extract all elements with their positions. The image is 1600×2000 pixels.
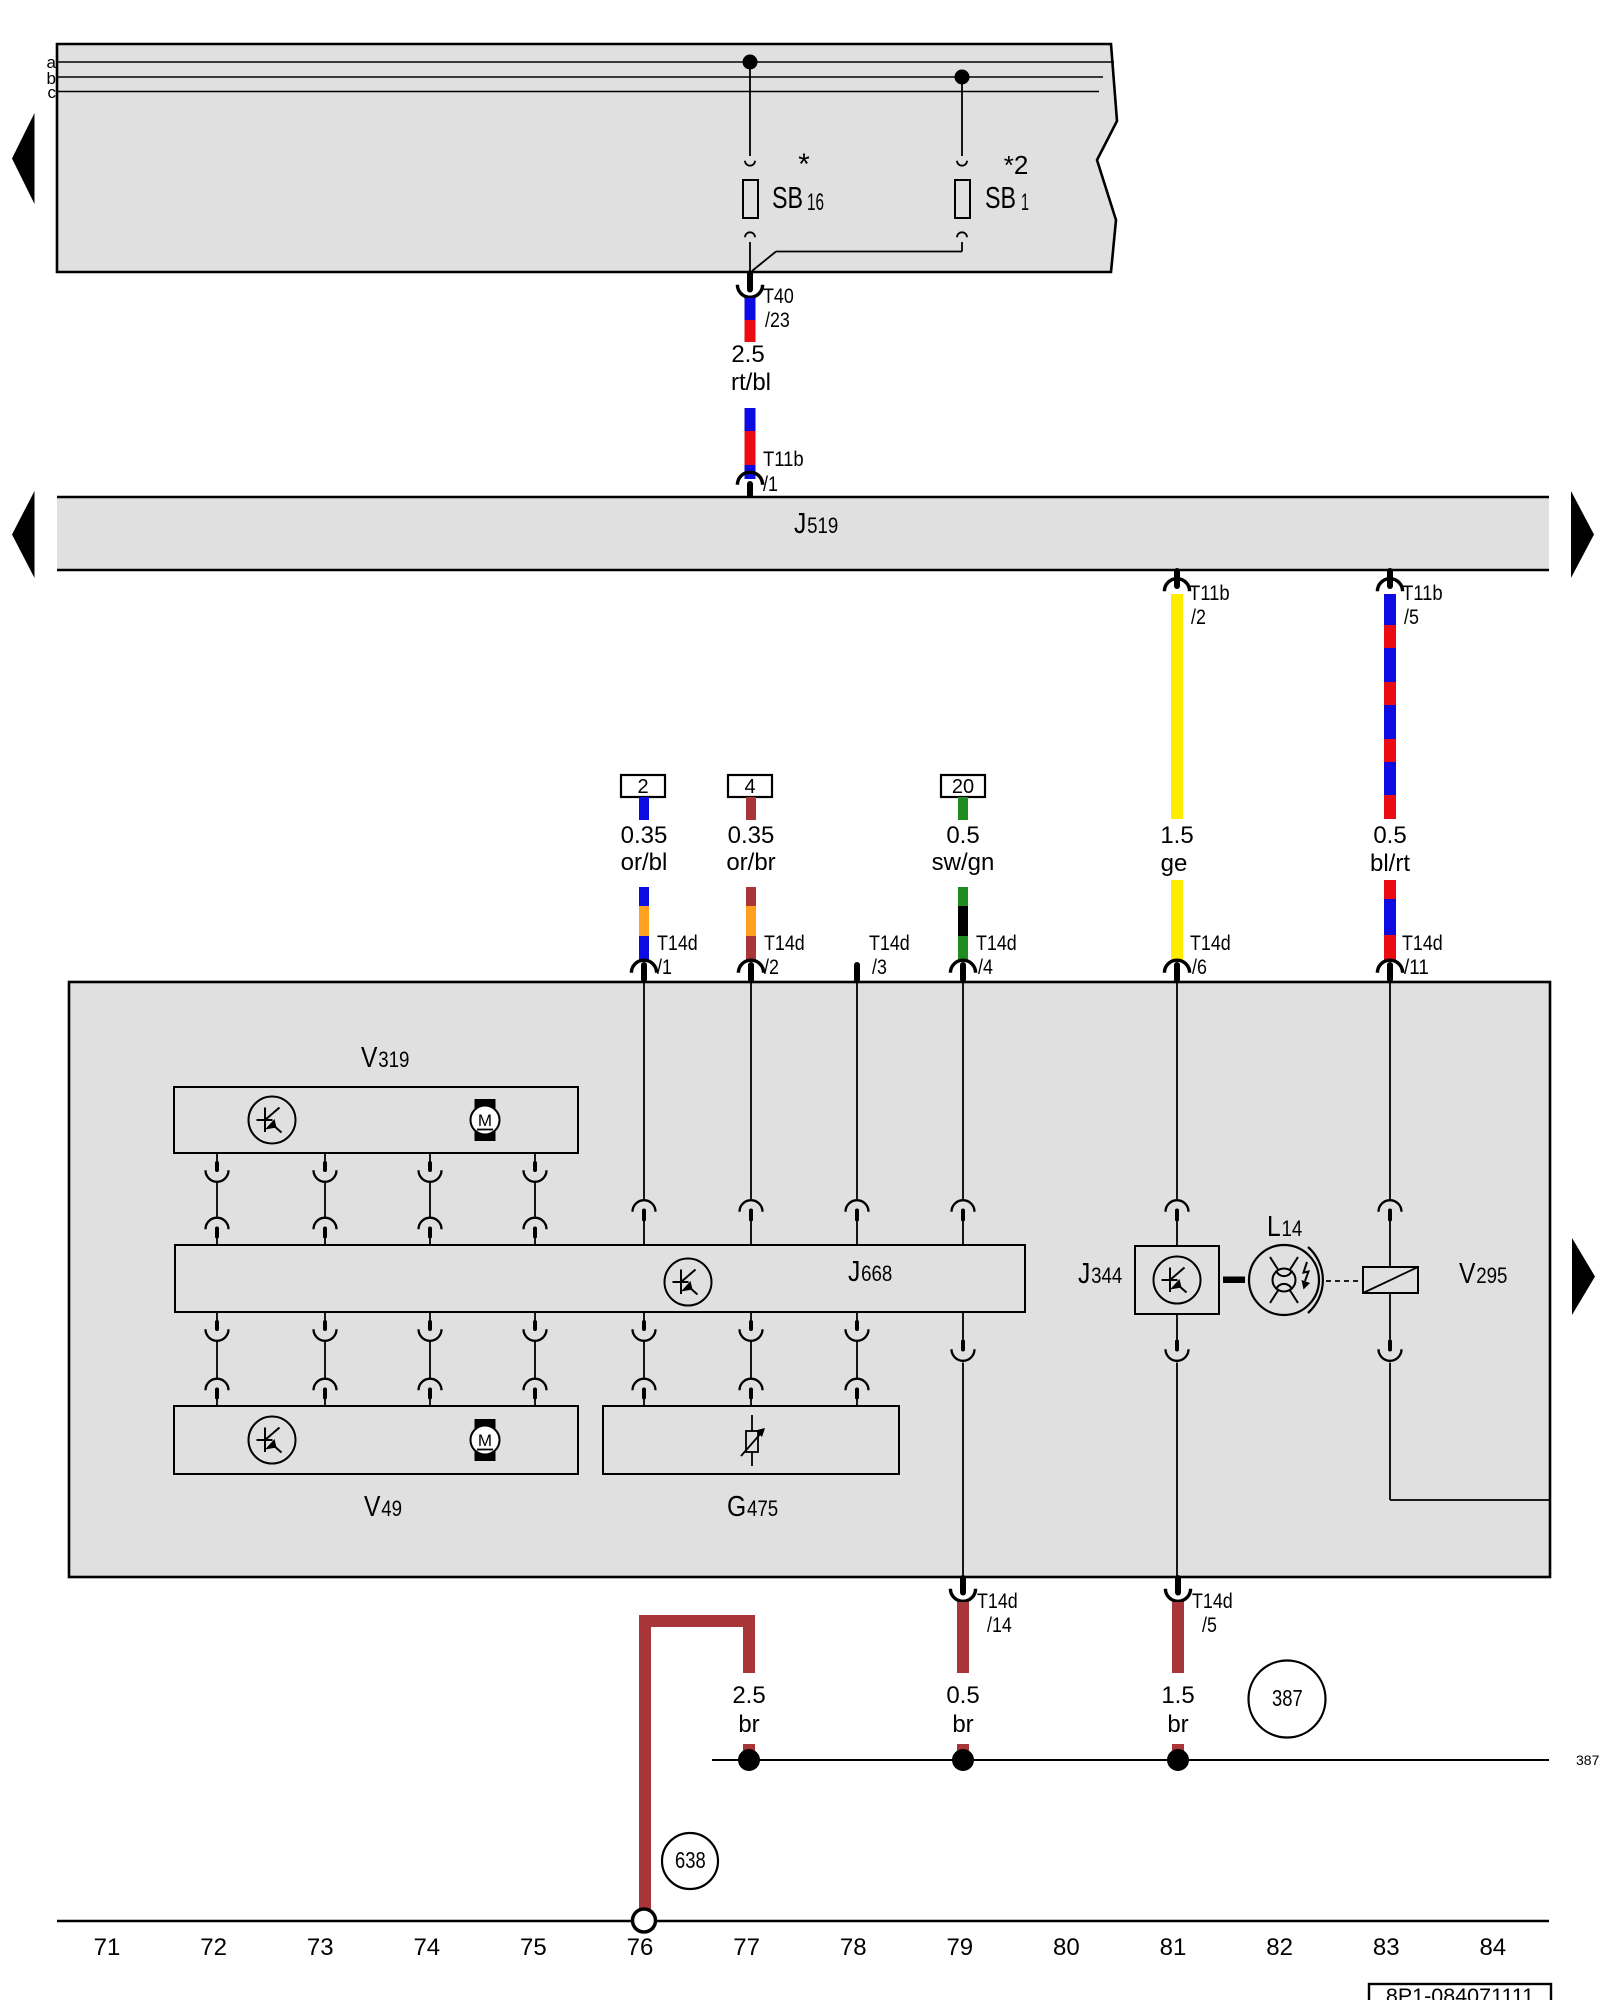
wire V295 down and right to box edge	[1379, 1293, 1550, 1500]
svg-text:M: M	[478, 1431, 492, 1450]
wire 1.5 ge lower segment	[1171, 880, 1183, 961]
svg-text:/23: /23	[765, 309, 790, 332]
svg-text:2.5: 2.5	[732, 1682, 765, 1709]
svg-text:78: 78	[840, 1934, 867, 1961]
wire 2.5 rt/bl lower segment	[745, 408, 756, 479]
svg-text:0.35: 0.35	[621, 822, 668, 849]
connector T14d/11	[1377, 932, 1442, 983]
power rail b	[47, 69, 1103, 88]
link bar J344 to L14	[1223, 1277, 1245, 1284]
svg-text:77: 77	[733, 1934, 760, 1961]
motor symbol in V49	[471, 1419, 500, 1461]
svg-text:*: *	[798, 148, 810, 181]
svg-text:sw/gn: sw/gn	[932, 849, 995, 876]
wire T14d/4 into J668	[952, 983, 975, 1245]
wire rail b to fuse SB1	[957, 77, 967, 166]
connector T40/23	[737, 274, 793, 333]
svg-text:83: 83	[1373, 1934, 1400, 1961]
right continuation arrow (main box)	[1572, 1238, 1595, 1315]
label 2.5 br	[732, 1682, 765, 1738]
svg-text:/1: /1	[763, 473, 778, 496]
svg-text:2.5: 2.5	[731, 341, 764, 368]
wire T14d/6 into J344	[1166, 983, 1189, 1246]
svg-text:T14d: T14d	[869, 932, 910, 955]
ground junction node 77	[738, 1749, 760, 1771]
connector pair J668-V49 #2	[314, 1312, 337, 1406]
svg-text:T14d: T14d	[764, 932, 805, 955]
wire reference box 20	[941, 775, 985, 820]
control unit J668	[175, 1245, 1025, 1312]
svg-text:20: 20	[952, 776, 974, 798]
thyristor symbol in V319	[249, 1097, 296, 1144]
label 0.35 or/br	[726, 822, 775, 876]
wire J668 to T14d/14	[952, 1312, 975, 1576]
sensor G475	[603, 1406, 899, 1523]
svg-text:2: 2	[637, 776, 648, 798]
wire T14d/3 into J668	[846, 983, 869, 1245]
svg-text:/11: /11	[1404, 956, 1429, 979]
motor symbol in V319	[471, 1099, 500, 1141]
wire 0.35 or/bl segment	[639, 887, 649, 961]
svg-text:4: 4	[744, 776, 755, 798]
left continuation arrow (top band)	[12, 113, 35, 204]
left continuation arrow (J519)	[12, 491, 35, 578]
variable resistor symbol in G475	[741, 1415, 765, 1466]
svg-text:T11b: T11b	[763, 448, 804, 471]
control unit J344	[1078, 1246, 1219, 1314]
wire fuse SB16 to T40/23	[745, 232, 755, 272]
connector pair V319-J668 #2	[314, 1153, 337, 1245]
lamp L14	[1249, 1211, 1323, 1315]
wire T14d/2 into J668	[740, 983, 763, 1245]
svg-text:br: br	[1167, 1711, 1188, 1738]
connector station / fuse box band (top)	[57, 44, 1117, 272]
svg-text:J: J	[1078, 1258, 1090, 1290]
connector pair V319-J668 #1	[206, 1153, 229, 1245]
right continuation arrow (J519)	[1571, 491, 1594, 578]
svg-text:387: 387	[1576, 1752, 1600, 1768]
bottom frame line	[57, 1920, 1549, 1922]
ground reference circle 638	[662, 1833, 718, 1889]
svg-text:SB: SB	[772, 180, 803, 215]
svg-text:76: 76	[627, 1934, 654, 1961]
power rail c	[48, 83, 1100, 102]
ground reference circle 387	[1249, 1661, 1326, 1738]
junction node on rail b	[955, 70, 970, 85]
svg-text:/3: /3	[872, 956, 887, 979]
svg-text:V: V	[361, 1042, 378, 1074]
label 0.5 bl/rt	[1370, 822, 1410, 877]
blower motor V49	[174, 1406, 578, 1523]
svg-text:/2: /2	[1191, 606, 1206, 629]
svg-text:84: 84	[1479, 1934, 1506, 1961]
svg-text:295: 295	[1476, 1263, 1507, 1288]
svg-text:or/br: or/br	[726, 849, 775, 876]
fuse SB16	[743, 148, 824, 218]
svg-text:81: 81	[1160, 1934, 1187, 1961]
svg-text:T14d: T14d	[657, 932, 698, 955]
wire 1.5 br segment	[1172, 1602, 1184, 1673]
wire 0.5 br segment	[957, 1602, 969, 1673]
connector T11b/5	[1377, 571, 1442, 629]
relay element V295	[1363, 1258, 1507, 1293]
svg-text:49: 49	[381, 1496, 402, 1521]
svg-text:/1: /1	[657, 956, 672, 979]
connector pair J668-G475 #3	[846, 1312, 869, 1406]
svg-text:319: 319	[378, 1047, 409, 1072]
svg-text:82: 82	[1266, 1934, 1293, 1961]
svg-text:br: br	[952, 1711, 973, 1738]
svg-text:T40: T40	[763, 285, 794, 308]
thyristor symbol in J668	[665, 1259, 712, 1306]
junction node on rail a	[743, 55, 758, 70]
wire 0.35 or/br segment	[746, 887, 756, 961]
wire reference box 4	[728, 775, 772, 820]
svg-text:T11b: T11b	[1189, 582, 1230, 605]
connector T14d/2	[738, 932, 804, 983]
wire 1.5 ge upper segment	[1171, 594, 1183, 819]
svg-text:668: 668	[861, 1261, 892, 1286]
label 1.5 ge	[1160, 822, 1193, 877]
svg-text:80: 80	[1053, 1934, 1080, 1961]
label 0.35 or/bl	[621, 822, 668, 876]
svg-text:or/bl: or/bl	[621, 849, 668, 876]
connector T14d/6	[1164, 932, 1230, 983]
svg-text:14: 14	[1282, 1216, 1303, 1241]
label 1.5 br	[1161, 1682, 1194, 1738]
svg-text:V: V	[1459, 1258, 1476, 1290]
svg-text:79: 79	[946, 1934, 973, 1961]
label 0.5 sw/gn	[932, 822, 995, 876]
ground terminal symbol	[633, 1909, 656, 1932]
wire 2.5 br stub to ground node	[743, 1744, 755, 1760]
wire T14d/11 into V295 relay	[1379, 983, 1402, 1267]
svg-text:/2: /2	[764, 956, 779, 979]
svg-text:387: 387	[1272, 1685, 1303, 1711]
connector T14d/14	[950, 1578, 1017, 1637]
wire 0.5 sw/gn segment	[958, 887, 968, 961]
svg-text:71: 71	[94, 1934, 121, 1961]
wire rail a to fuse SB16	[745, 62, 755, 166]
blower motor V319	[174, 1042, 578, 1153]
svg-text:75: 75	[520, 1934, 547, 1961]
svg-text:519: 519	[807, 513, 838, 538]
svg-text:/4: /4	[978, 956, 993, 979]
connector pair J668-V49 #4	[524, 1312, 547, 1406]
svg-text:1: 1	[1021, 189, 1029, 216]
wire 1.5 br stub to ground node	[1172, 1744, 1184, 1760]
label 2.5 rt/bl	[731, 341, 771, 396]
ground bus line 387	[712, 1752, 1600, 1768]
svg-text:T14d: T14d	[976, 932, 1017, 955]
svg-text:J: J	[848, 1256, 860, 1288]
connector T14d/4	[950, 932, 1016, 983]
svg-text:c: c	[48, 83, 57, 102]
fuse SB1	[955, 150, 1029, 218]
main component box	[69, 982, 1550, 1577]
svg-text:T11b: T11b	[1402, 582, 1443, 605]
thyristor symbol in J344	[1154, 1257, 1201, 1304]
grid column numbers 71-84	[94, 1934, 1507, 1961]
svg-text:73: 73	[307, 1934, 334, 1961]
connector pair J668-G475 #2	[740, 1312, 763, 1406]
wire 2.5 br from main box	[645, 1621, 749, 1909]
svg-text:638: 638	[675, 1847, 706, 1873]
connector pair V319-J668 #3	[419, 1153, 442, 1245]
svg-text:0.5: 0.5	[946, 822, 979, 849]
svg-text:bl/rt: bl/rt	[1370, 850, 1410, 877]
svg-text:/14: /14	[987, 1614, 1012, 1637]
svg-text:1.5: 1.5	[1161, 1682, 1194, 1709]
diagram number box	[1369, 1984, 1551, 2000]
svg-text:J: J	[794, 508, 806, 540]
wire reference box 2	[621, 775, 665, 820]
svg-text:SB: SB	[985, 180, 1016, 215]
wire 0.5 bl/rt lower segment	[1384, 880, 1396, 961]
svg-text:T14d: T14d	[1190, 932, 1231, 955]
svg-text:8P1-084071111: 8P1-084071111	[1386, 1984, 1534, 2000]
svg-text:T14d: T14d	[977, 1590, 1018, 1613]
wire 2.5 rt/bl upper segment	[745, 298, 756, 342]
wire fuse SB1 down and left to T40/23	[752, 232, 967, 271]
svg-text:T14d: T14d	[1402, 932, 1443, 955]
svg-text:/5: /5	[1202, 1614, 1217, 1637]
svg-text:G: G	[727, 1491, 746, 1523]
svg-text:/5: /5	[1404, 606, 1419, 629]
svg-text:0.5: 0.5	[946, 1682, 979, 1709]
svg-text:0.5: 0.5	[1373, 822, 1406, 849]
wire J344 below to T14d/5	[1166, 1314, 1189, 1576]
wire 0.5 bl/rt upper segment	[1384, 594, 1396, 819]
connector T14d/5	[1165, 1578, 1232, 1637]
connector T14d/3	[857, 932, 910, 983]
ground junction node 79	[952, 1749, 974, 1771]
connector T14d/1	[631, 932, 697, 983]
svg-text:ge: ge	[1161, 850, 1188, 877]
svg-text:1.5: 1.5	[1160, 822, 1193, 849]
power rail a	[47, 53, 1114, 72]
svg-text:T14d: T14d	[1192, 1590, 1233, 1613]
ground junction node 81	[1167, 1749, 1189, 1771]
connector pair V319-J668 #4	[524, 1153, 547, 1245]
control unit J519 band	[57, 497, 1549, 570]
svg-text:344: 344	[1091, 1263, 1122, 1288]
wire 0.5 br stub to ground node	[957, 1744, 969, 1760]
thyristor symbol in V49	[249, 1417, 296, 1464]
svg-text:rt/bl: rt/bl	[731, 369, 771, 396]
svg-text:/6: /6	[1192, 956, 1207, 979]
wire T14d/1 into J668	[633, 983, 656, 1245]
svg-text:M: M	[478, 1111, 492, 1130]
svg-text:74: 74	[413, 1934, 440, 1961]
connector pair J668-V49 #3	[419, 1312, 442, 1406]
svg-text:475: 475	[747, 1496, 778, 1521]
svg-text:V: V	[364, 1491, 381, 1523]
connector pair J668-V49 #1	[206, 1312, 229, 1406]
svg-text:*2: *2	[1004, 150, 1029, 180]
label 0.5 br	[946, 1682, 979, 1738]
svg-text:0.35: 0.35	[728, 822, 775, 849]
connector T11b/1	[737, 448, 803, 497]
svg-text:L: L	[1267, 1211, 1281, 1243]
connector T11b/2	[1164, 571, 1229, 629]
svg-text:br: br	[738, 1711, 759, 1738]
svg-text:16: 16	[807, 189, 824, 216]
dashed link L14 to V295	[1326, 1280, 1362, 1282]
svg-text:72: 72	[200, 1934, 227, 1961]
connector pair J668-G475 #1	[633, 1312, 656, 1406]
